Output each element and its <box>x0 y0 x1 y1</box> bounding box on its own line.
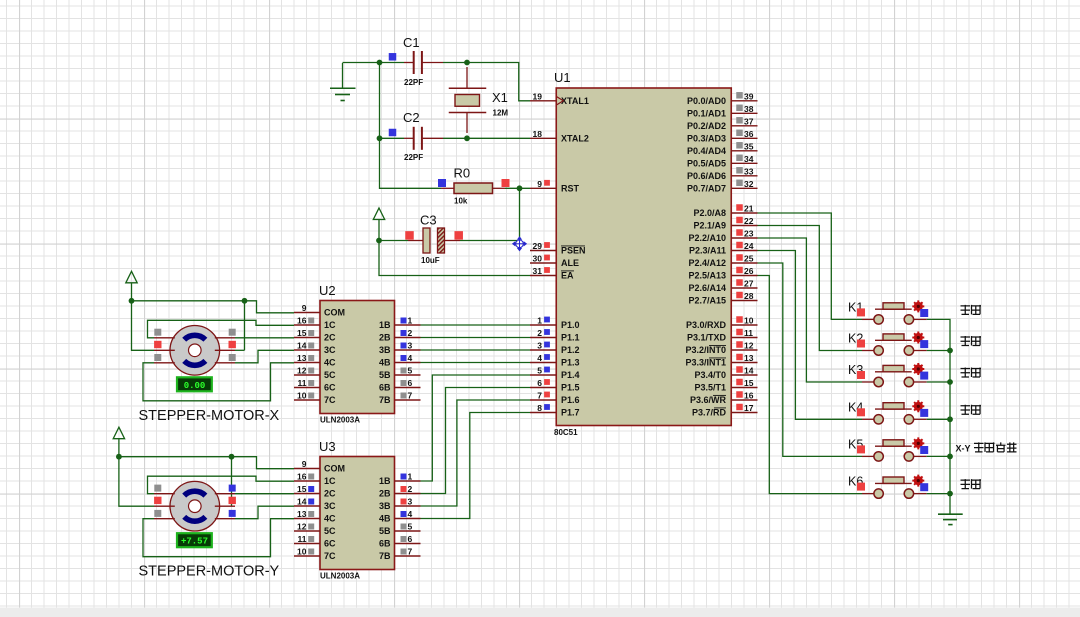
capacitor C2 <box>389 110 443 162</box>
svg-text:P3.6/WR: P3.6/WR <box>690 395 727 405</box>
svg-text:PSEN: PSEN <box>561 246 586 256</box>
pin 39 P0.0/AD0 of U1 <box>687 91 758 106</box>
wire R0-to-RST <box>505 187 530 189</box>
pin 7 7B of U2 <box>379 391 421 406</box>
pin 27 P2.6/A14 of U1 <box>688 279 757 294</box>
svg-text:28: 28 <box>744 291 754 301</box>
svg-text:P3.0/RXD: P3.0/RXD <box>686 320 727 330</box>
svg-text:6C: 6C <box>324 539 336 549</box>
wire coil4 STEPPER-MOTOR-X <box>143 363 294 401</box>
svg-text:P2.6/A14: P2.6/A14 <box>688 283 726 293</box>
wire right common STEPPER-MOTOR-X <box>235 301 245 351</box>
svg-text:3: 3 <box>537 341 542 351</box>
svg-text:C3: C3 <box>420 213 437 228</box>
pin 35 P0.4/AD4 of U1 <box>687 141 758 156</box>
wire U3 outputs to U1 P1.4-P1.7 <box>421 375 531 519</box>
svg-text:11: 11 <box>744 328 753 338</box>
svg-text:2B: 2B <box>379 333 391 343</box>
pin 38 P0.1/AD1 of U1 <box>687 104 758 119</box>
node junction bus-K5 <box>947 454 953 460</box>
svg-text:14: 14 <box>297 341 307 351</box>
svg-text:2: 2 <box>408 484 413 494</box>
svg-text:12M: 12M <box>493 109 509 118</box>
svg-text:3B: 3B <box>379 501 391 511</box>
svg-text:15: 15 <box>297 328 307 338</box>
svg-text:4B: 4B <box>379 514 391 524</box>
pin 2 2B of U3 <box>379 484 421 499</box>
ground <box>330 63 356 101</box>
pin 22 P2.1/A9 of U1 <box>693 216 757 231</box>
label for K1 <box>961 305 982 315</box>
pin 9 COM of U2 <box>294 303 345 318</box>
svg-text:10: 10 <box>297 547 307 557</box>
svg-text:10: 10 <box>297 391 307 401</box>
svg-text:6C: 6C <box>324 383 336 393</box>
svg-text:P1.5: P1.5 <box>561 383 580 393</box>
pin 18 XTAL2 of U1 <box>530 129 589 144</box>
pin 4 P1.3 of U1 <box>530 353 580 368</box>
svg-text:2C: 2C <box>324 489 336 499</box>
svg-text:ULN2003A: ULN2003A <box>320 416 360 425</box>
svg-text:5B: 5B <box>379 370 391 380</box>
pin 24 P2.3/A11 of U1 <box>689 241 758 256</box>
pin 14 3C of U3 <box>294 497 336 512</box>
svg-text:2B: 2B <box>379 489 391 499</box>
pin 23 P2.2/A10 of U1 <box>688 229 757 244</box>
node junction bus-K6 <box>947 491 953 497</box>
wire coil1 STEPPER-MOTOR-X <box>148 320 295 338</box>
svg-text:7B: 7B <box>379 551 391 561</box>
wire K6 right to bus <box>927 493 950 495</box>
svg-text:17: 17 <box>744 403 754 413</box>
svg-text:P3.5/T1: P3.5/T1 <box>694 383 726 393</box>
wire coil1 STEPPER-MOTOR-Y <box>148 476 295 494</box>
svg-text:X1: X1 <box>492 90 508 105</box>
pin 6 P1.5 of U1 <box>530 378 580 393</box>
svg-text:5C: 5C <box>324 370 336 380</box>
svg-text:4B: 4B <box>379 358 391 368</box>
svg-text:1C: 1C <box>324 320 336 330</box>
pin 37 P0.2/AD2 of U1 <box>687 116 758 131</box>
motor STEPPER-MOTOR-X <box>154 326 236 376</box>
svg-text:P2.3/A11: P2.3/A11 <box>689 246 726 256</box>
svg-text:P1.4: P1.4 <box>561 370 580 380</box>
svg-text:6B: 6B <box>379 539 391 549</box>
svg-text:34: 34 <box>744 154 754 164</box>
pin 12 5C of U3 <box>294 522 336 537</box>
svg-text:8: 8 <box>537 403 542 413</box>
svg-text:32: 32 <box>744 179 754 189</box>
pin 21 P2.0/A8 of U1 <box>693 204 757 219</box>
switch K2 <box>848 332 928 356</box>
pin 36 P0.3/AD3 of U1 <box>687 129 758 144</box>
svg-text:10: 10 <box>744 316 754 326</box>
wire net-XTAL2 row <box>380 137 531 139</box>
svg-text:13: 13 <box>297 509 307 519</box>
pin 14 3C of U2 <box>294 341 336 356</box>
svg-text:26: 26 <box>744 266 754 276</box>
pin 28 P2.7/A15 of U1 <box>688 291 757 306</box>
pin 32 P0.7/AD7 of U1 <box>687 179 758 194</box>
svg-text:COM: COM <box>324 308 345 318</box>
power arrow near C3 <box>373 208 384 241</box>
svg-text:25: 25 <box>744 254 754 264</box>
origin marker <box>513 237 527 251</box>
label for K2 <box>961 336 982 346</box>
pin 3 3B of U2 <box>379 341 421 356</box>
wire coil2 STEPPER-MOTOR-Y <box>235 493 294 495</box>
pin 9 COM of U3 <box>294 459 345 474</box>
switch K1 <box>848 300 928 324</box>
svg-text:16: 16 <box>297 472 307 482</box>
pin 13 4C of U3 <box>294 509 336 524</box>
wire net P2.0 to K1 <box>758 213 863 319</box>
pin 11 P3.1/TXD of U1 <box>687 328 758 343</box>
label STEPPER-MOTOR-Y <box>139 564 280 580</box>
svg-text:29: 29 <box>533 241 543 251</box>
ground below key bus <box>938 494 963 525</box>
svg-text:7C: 7C <box>324 395 336 405</box>
wire key bus vertical <box>927 319 950 493</box>
pin 16 P3.6/WR of U1 <box>690 391 758 406</box>
svg-text:U1: U1 <box>554 70 571 85</box>
op-amp U1 microcontroller 80C51 body <box>554 70 731 437</box>
pin 2 2B of U2 <box>379 328 421 343</box>
svg-text:U3: U3 <box>319 439 336 454</box>
pin 31 EA of U1 <box>530 266 574 281</box>
svg-text:37: 37 <box>744 116 754 126</box>
svg-text:15: 15 <box>744 378 754 388</box>
pin 26 P2.5/A13 of U1 <box>688 266 757 281</box>
svg-text:5: 5 <box>408 522 413 532</box>
svg-text:3: 3 <box>408 341 413 351</box>
node junction rail-right STEPPER-MOTOR-X <box>242 298 248 304</box>
svg-text:P0.0/AD0: P0.0/AD0 <box>687 96 726 106</box>
svg-text:10k: 10k <box>454 197 468 206</box>
svg-text:P2.0/A8: P2.0/A8 <box>693 208 726 218</box>
node junction rail-left STEPPER-MOTOR-Y <box>116 454 122 460</box>
pin 7 7B of U3 <box>379 547 421 562</box>
wire coil3 STEPPER-MOTOR-X <box>235 350 294 363</box>
svg-text:P0.3/AD3: P0.3/AD3 <box>687 134 726 144</box>
wire net P2.1 to K2 <box>758 226 863 351</box>
svg-text:9: 9 <box>302 459 307 469</box>
svg-text:P3.2/INT0: P3.2/INT0 <box>685 345 726 355</box>
svg-text:18: 18 <box>533 129 543 139</box>
svg-text:12: 12 <box>297 366 307 376</box>
resistor R0 <box>438 166 510 206</box>
pin 11 6C of U2 <box>294 378 336 393</box>
wire power rail STEPPER-MOTOR-X <box>132 301 295 313</box>
svg-text:16: 16 <box>297 316 307 326</box>
svg-text:P1.0: P1.0 <box>561 320 580 330</box>
svg-text:2: 2 <box>408 328 413 338</box>
svg-text:P3.7/RD: P3.7/RD <box>692 408 727 418</box>
svg-text:2C: 2C <box>324 333 336 343</box>
svg-text:24: 24 <box>744 241 754 251</box>
svg-text:5: 5 <box>537 366 542 376</box>
svg-text:13: 13 <box>744 353 754 363</box>
svg-text:P1.7: P1.7 <box>561 408 580 418</box>
svg-text:33: 33 <box>744 166 754 176</box>
svg-text:30: 30 <box>533 254 543 264</box>
svg-text:11: 11 <box>298 534 307 544</box>
capacitor C1 <box>389 35 443 87</box>
svg-text:7: 7 <box>408 547 413 557</box>
pin 14 P3.4/T0 of U1 <box>694 366 757 381</box>
svg-text:7: 7 <box>408 391 413 401</box>
node junction RST <box>517 185 523 191</box>
svg-text:P2.4/A12: P2.4/A12 <box>688 258 726 268</box>
svg-text:4: 4 <box>408 353 413 363</box>
svg-text:13: 13 <box>297 353 307 363</box>
switch K6 <box>848 475 928 499</box>
wire coil4 STEPPER-MOTOR-Y <box>143 519 294 557</box>
wire net P2.2 to K3 <box>758 238 863 382</box>
op-amp U2 ULN2003A body <box>319 283 395 425</box>
switch K4 <box>848 400 928 424</box>
switch K3 <box>848 363 928 387</box>
power arrow for STEPPER-MOTOR-X <box>126 271 137 301</box>
wire coil3 STEPPER-MOTOR-Y <box>235 506 294 519</box>
svg-text:4C: 4C <box>324 514 336 524</box>
node junction bus-K2 <box>947 348 953 354</box>
svg-text:36: 36 <box>744 129 754 139</box>
svg-text:10uF: 10uF <box>421 256 440 265</box>
svg-text:3: 3 <box>408 497 413 507</box>
svg-text:1: 1 <box>408 472 413 482</box>
label for K3 <box>961 368 982 378</box>
svg-text:2: 2 <box>537 328 542 338</box>
wire K3 right to bus <box>927 381 950 383</box>
svg-text:4C: 4C <box>324 358 336 368</box>
svg-text:U2: U2 <box>319 283 336 298</box>
pin 1 1B of U2 <box>379 316 421 331</box>
node junction bus-K4 <box>947 416 953 422</box>
pin 15 P3.5/T1 of U1 <box>694 378 757 393</box>
label for K6 <box>961 479 982 489</box>
wire left common STEPPER-MOTOR-Y <box>119 457 154 507</box>
node junction rail-left STEPPER-MOTOR-X <box>129 298 135 304</box>
svg-text:9: 9 <box>537 179 542 189</box>
svg-text:P2.5/A13: P2.5/A13 <box>688 271 726 281</box>
svg-text:22: 22 <box>744 216 754 226</box>
svg-text:39: 39 <box>744 91 754 101</box>
wire RST-down-to-C3 <box>519 188 521 240</box>
svg-text:11: 11 <box>298 378 307 388</box>
svg-text:4: 4 <box>537 353 542 363</box>
svg-text:P0.4/AD4: P0.4/AD4 <box>687 146 726 156</box>
svg-text:STEPPER-MOTOR-Y: STEPPER-MOTOR-Y <box>139 564 280 580</box>
pin 25 P2.4/A12 of U1 <box>688 254 757 269</box>
pin 10 7C of U3 <box>294 547 336 562</box>
svg-text:21: 21 <box>744 204 754 214</box>
svg-text:6B: 6B <box>379 383 391 393</box>
wire left common STEPPER-MOTOR-X <box>132 301 155 351</box>
svg-text:XTAL2: XTAL2 <box>561 134 589 144</box>
pin 1 1B of U3 <box>379 472 421 487</box>
node junction rail-right STEPPER-MOTOR-Y <box>229 454 235 460</box>
svg-text:P0.5/AD5: P0.5/AD5 <box>687 159 726 169</box>
svg-text:R0: R0 <box>454 166 471 181</box>
node junction C3-left <box>376 238 382 244</box>
svg-text:X-Y: X-Y <box>956 443 971 453</box>
svg-text:COM: COM <box>324 464 345 474</box>
svg-text:80C51: 80C51 <box>554 428 578 437</box>
wire K4 right to bus <box>927 418 950 420</box>
svg-text:19: 19 <box>533 91 543 101</box>
pin 12 P3.2/INT0 of U1 <box>685 341 757 356</box>
wire net-XTAL1 top rail <box>343 63 531 101</box>
power arrow for STEPPER-MOTOR-Y <box>113 427 124 457</box>
svg-text:1B: 1B <box>379 476 391 486</box>
display for STEPPER-MOTOR-Y <box>177 533 212 547</box>
svg-text:1: 1 <box>537 316 542 326</box>
pin 3 3B of U3 <box>379 497 421 512</box>
wire net P2.4 to K5 <box>758 263 863 456</box>
pin 6 6B of U2 <box>379 378 421 393</box>
pin 16 1C of U2 <box>294 316 336 331</box>
svg-text:6: 6 <box>537 378 542 388</box>
svg-text:P1.2: P1.2 <box>561 345 580 355</box>
pin 2 P1.1 of U1 <box>530 328 580 343</box>
label for K4 <box>961 405 982 415</box>
node junction C1-left <box>377 60 383 66</box>
pin 5 P1.4 of U1 <box>530 366 580 381</box>
pin 13 4C of U2 <box>294 353 336 368</box>
pin 30 ALE of U1 <box>530 254 579 269</box>
pin 7 P1.6 of U1 <box>530 391 580 406</box>
pin 17 P3.7/RD of U1 <box>692 403 758 418</box>
label for K5 <box>956 442 1017 453</box>
pin 5 5B of U2 <box>379 366 421 381</box>
svg-text:EA: EA <box>561 271 574 281</box>
svg-text:P1.3: P1.3 <box>561 358 580 368</box>
svg-text:ULN2003A: ULN2003A <box>320 572 360 581</box>
pin 29 PSEN of U1 <box>530 241 586 256</box>
svg-text:3B: 3B <box>379 345 391 355</box>
svg-text:15: 15 <box>297 484 307 494</box>
svg-text:P1.1: P1.1 <box>561 333 580 343</box>
svg-text:22PF: 22PF <box>404 78 423 87</box>
svg-text:35: 35 <box>744 141 754 151</box>
pin 3 P1.2 of U1 <box>530 341 580 356</box>
wire U2 outputs to U1 P1.0-P1.3 <box>421 325 531 363</box>
motor STEPPER-MOTOR-Y <box>154 481 236 531</box>
svg-text:6: 6 <box>408 378 413 388</box>
node junction C2-left <box>377 135 383 141</box>
svg-text:7B: 7B <box>379 395 391 405</box>
svg-text:7: 7 <box>537 391 542 401</box>
svg-text:5C: 5C <box>324 526 336 536</box>
svg-text:14: 14 <box>744 366 754 376</box>
pin 19 XTAL1 of U1 <box>530 91 589 106</box>
svg-text:STEPPER-MOTOR-X: STEPPER-MOTOR-X <box>139 408 280 424</box>
svg-text:6: 6 <box>408 534 413 544</box>
pin 13 P3.3/INT1 of U1 <box>685 353 757 368</box>
svg-text:P1.6: P1.6 <box>561 395 580 405</box>
crystal X1 <box>449 67 509 133</box>
svg-text:P0.6/AD6: P0.6/AD6 <box>687 171 726 181</box>
svg-text:4: 4 <box>408 509 413 519</box>
pin 11 6C of U3 <box>294 534 336 549</box>
svg-text:P2.1/A9: P2.1/A9 <box>693 221 726 231</box>
switch K5 <box>848 437 928 461</box>
wire K5 right to bus <box>927 455 950 457</box>
pin 10 7C of U2 <box>294 391 336 406</box>
pin 9 RST of U1 <box>530 179 580 194</box>
pin 15 2C of U2 <box>294 328 336 343</box>
svg-text:P3.1/TXD: P3.1/TXD <box>687 333 727 343</box>
pin 4 4B of U2 <box>379 353 421 368</box>
pin 8 P1.7 of U1 <box>530 403 580 418</box>
svg-text:38: 38 <box>744 104 754 114</box>
pin 4 4B of U3 <box>379 509 421 524</box>
svg-text:1C: 1C <box>324 476 336 486</box>
pin 10 P3.0/RXD of U1 <box>686 316 758 331</box>
wire power rail STEPPER-MOTOR-Y <box>119 457 294 469</box>
wire C3 row <box>379 240 517 242</box>
svg-text:XTAL1: XTAL1 <box>561 96 589 106</box>
svg-text:23: 23 <box>744 229 754 239</box>
pin 1 P1.0 of U1 <box>530 316 580 331</box>
svg-text:P0.7/AD7: P0.7/AD7 <box>687 184 726 194</box>
display for STEPPER-MOTOR-X <box>177 377 212 391</box>
svg-text:P3.4/T0: P3.4/T0 <box>694 370 726 380</box>
svg-text:C2: C2 <box>403 110 420 125</box>
node junction C2-right/X1-bottom <box>464 135 470 141</box>
svg-text:RST: RST <box>561 184 580 194</box>
op-amp U3 ULN2003A body <box>319 439 395 581</box>
wire net-EA <box>379 241 530 276</box>
pin 5 5B of U3 <box>379 522 421 537</box>
svg-text:P2.7/A15: P2.7/A15 <box>688 296 726 306</box>
pin 15 2C of U3 <box>294 484 336 499</box>
svg-text:P3.3/INT1: P3.3/INT1 <box>685 358 726 368</box>
pin 33 P0.6/AD6 of U1 <box>687 166 758 181</box>
wire vertical C1-C2-RST <box>380 63 442 189</box>
svg-text:9: 9 <box>302 303 307 313</box>
svg-text:22PF: 22PF <box>404 153 423 162</box>
svg-text:C1: C1 <box>403 35 420 50</box>
svg-text:27: 27 <box>744 279 754 289</box>
svg-text:1: 1 <box>408 316 413 326</box>
wire net P2.5 to K6 <box>758 276 863 494</box>
svg-text:P0.2/AD2: P0.2/AD2 <box>687 121 726 131</box>
svg-text:7C: 7C <box>324 551 336 561</box>
pin 12 5C of U2 <box>294 366 336 381</box>
pin 34 P0.5/AD5 of U1 <box>687 154 758 169</box>
svg-text:31: 31 <box>533 266 543 276</box>
pin 6 6B of U3 <box>379 534 421 549</box>
label STEPPER-MOTOR-X <box>139 408 280 424</box>
svg-text:P2.2/A10: P2.2/A10 <box>688 233 726 243</box>
svg-text:1B: 1B <box>379 320 391 330</box>
capacitor C3 <box>405 213 463 266</box>
svg-text:+7.57: +7.57 <box>181 537 208 547</box>
svg-text:3C: 3C <box>324 345 336 355</box>
svg-text:5B: 5B <box>379 526 391 536</box>
wire coil2 STEPPER-MOTOR-X <box>235 337 294 339</box>
wire right common STEPPER-MOTOR-Y <box>231 457 233 507</box>
pin 16 1C of U3 <box>294 472 336 487</box>
svg-text:14: 14 <box>297 497 307 507</box>
svg-text:5: 5 <box>408 366 413 376</box>
svg-text:12: 12 <box>297 522 307 532</box>
node junction bus-K3 <box>947 379 953 385</box>
svg-text:16: 16 <box>744 391 754 401</box>
svg-text:3C: 3C <box>324 501 336 511</box>
